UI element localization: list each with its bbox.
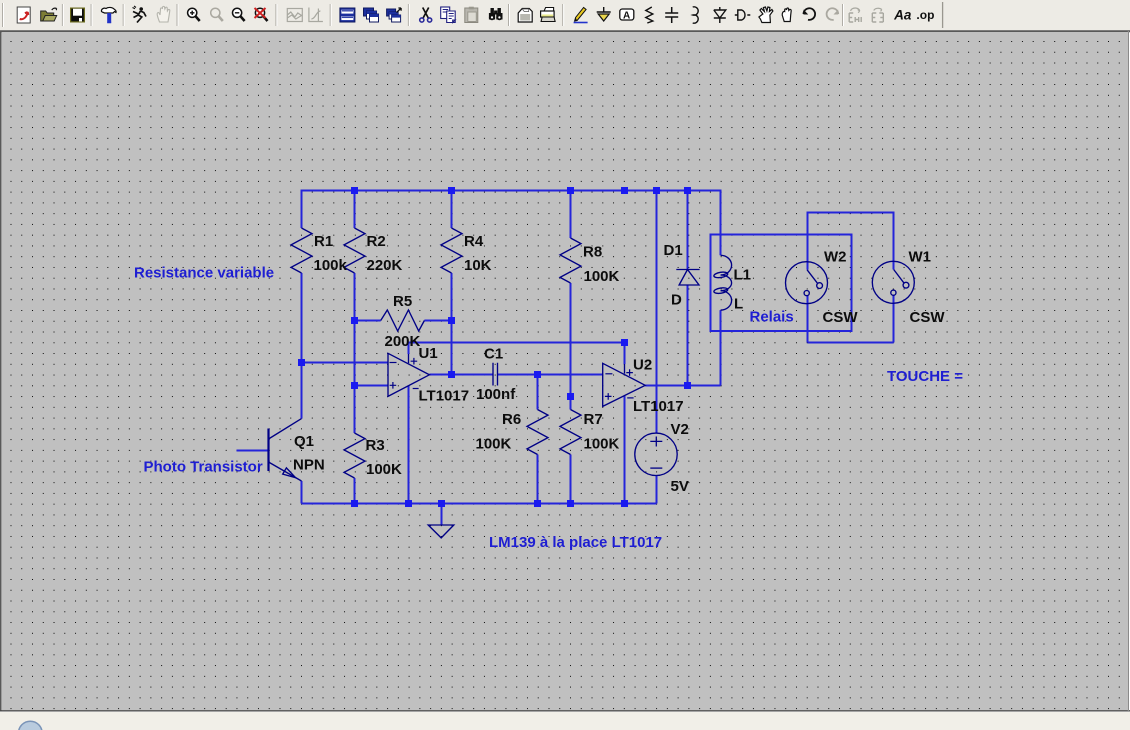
- svg-text:.op: .op: [916, 8, 934, 22]
- svg-text:Relais: Relais: [750, 309, 794, 326]
- svg-text:Aa: Aa: [893, 8, 912, 23]
- svg-text:LT1017: LT1017: [633, 398, 684, 415]
- svg-text:R3: R3: [366, 437, 385, 454]
- svg-text:100K: 100K: [584, 436, 620, 453]
- svg-text:U1: U1: [419, 345, 438, 362]
- svg-text:R5: R5: [393, 293, 412, 310]
- svg-text:100k: 100k: [314, 257, 348, 274]
- svg-text:NPN: NPN: [293, 457, 325, 474]
- svg-text:10K: 10K: [464, 257, 492, 274]
- svg-text:C1: C1: [484, 346, 503, 363]
- svg-text:L1: L1: [734, 267, 752, 284]
- svg-text:LM139 à la place LT1017: LM139 à la place LT1017: [489, 534, 662, 551]
- svg-text:R1: R1: [314, 233, 333, 250]
- svg-text:L: L: [734, 296, 743, 313]
- svg-text:200K: 200K: [385, 333, 421, 350]
- svg-text:TOUCHE =: TOUCHE =: [887, 368, 963, 385]
- svg-text:100nf: 100nf: [476, 386, 516, 403]
- svg-text:D: D: [671, 292, 682, 309]
- svg-text:U2: U2: [633, 357, 652, 374]
- svg-text:100K: 100K: [476, 436, 512, 453]
- svg-text:W1: W1: [909, 249, 932, 266]
- svg-text:A: A: [623, 11, 630, 22]
- svg-text:R8: R8: [583, 244, 602, 261]
- svg-text:CSW: CSW: [910, 309, 946, 326]
- svg-text:100K: 100K: [584, 268, 620, 285]
- svg-text:V2: V2: [671, 421, 689, 438]
- svg-text:R4: R4: [464, 233, 484, 250]
- svg-text:100K: 100K: [366, 461, 402, 478]
- svg-text:5V: 5V: [671, 478, 689, 495]
- svg-text:220K: 220K: [367, 257, 403, 274]
- svg-text:W2: W2: [824, 249, 847, 266]
- svg-text:Q1: Q1: [294, 433, 314, 450]
- svg-text:CSW: CSW: [823, 309, 859, 326]
- svg-text:Photo Transistor: Photo Transistor: [144, 459, 263, 476]
- svg-text:D1: D1: [664, 242, 683, 259]
- svg-text:R2: R2: [367, 233, 386, 250]
- svg-text:Resistance variable: Resistance variable: [134, 265, 274, 282]
- svg-text:R6: R6: [502, 411, 521, 428]
- svg-text:LT1017: LT1017: [419, 388, 470, 405]
- svg-text:R7: R7: [584, 411, 603, 428]
